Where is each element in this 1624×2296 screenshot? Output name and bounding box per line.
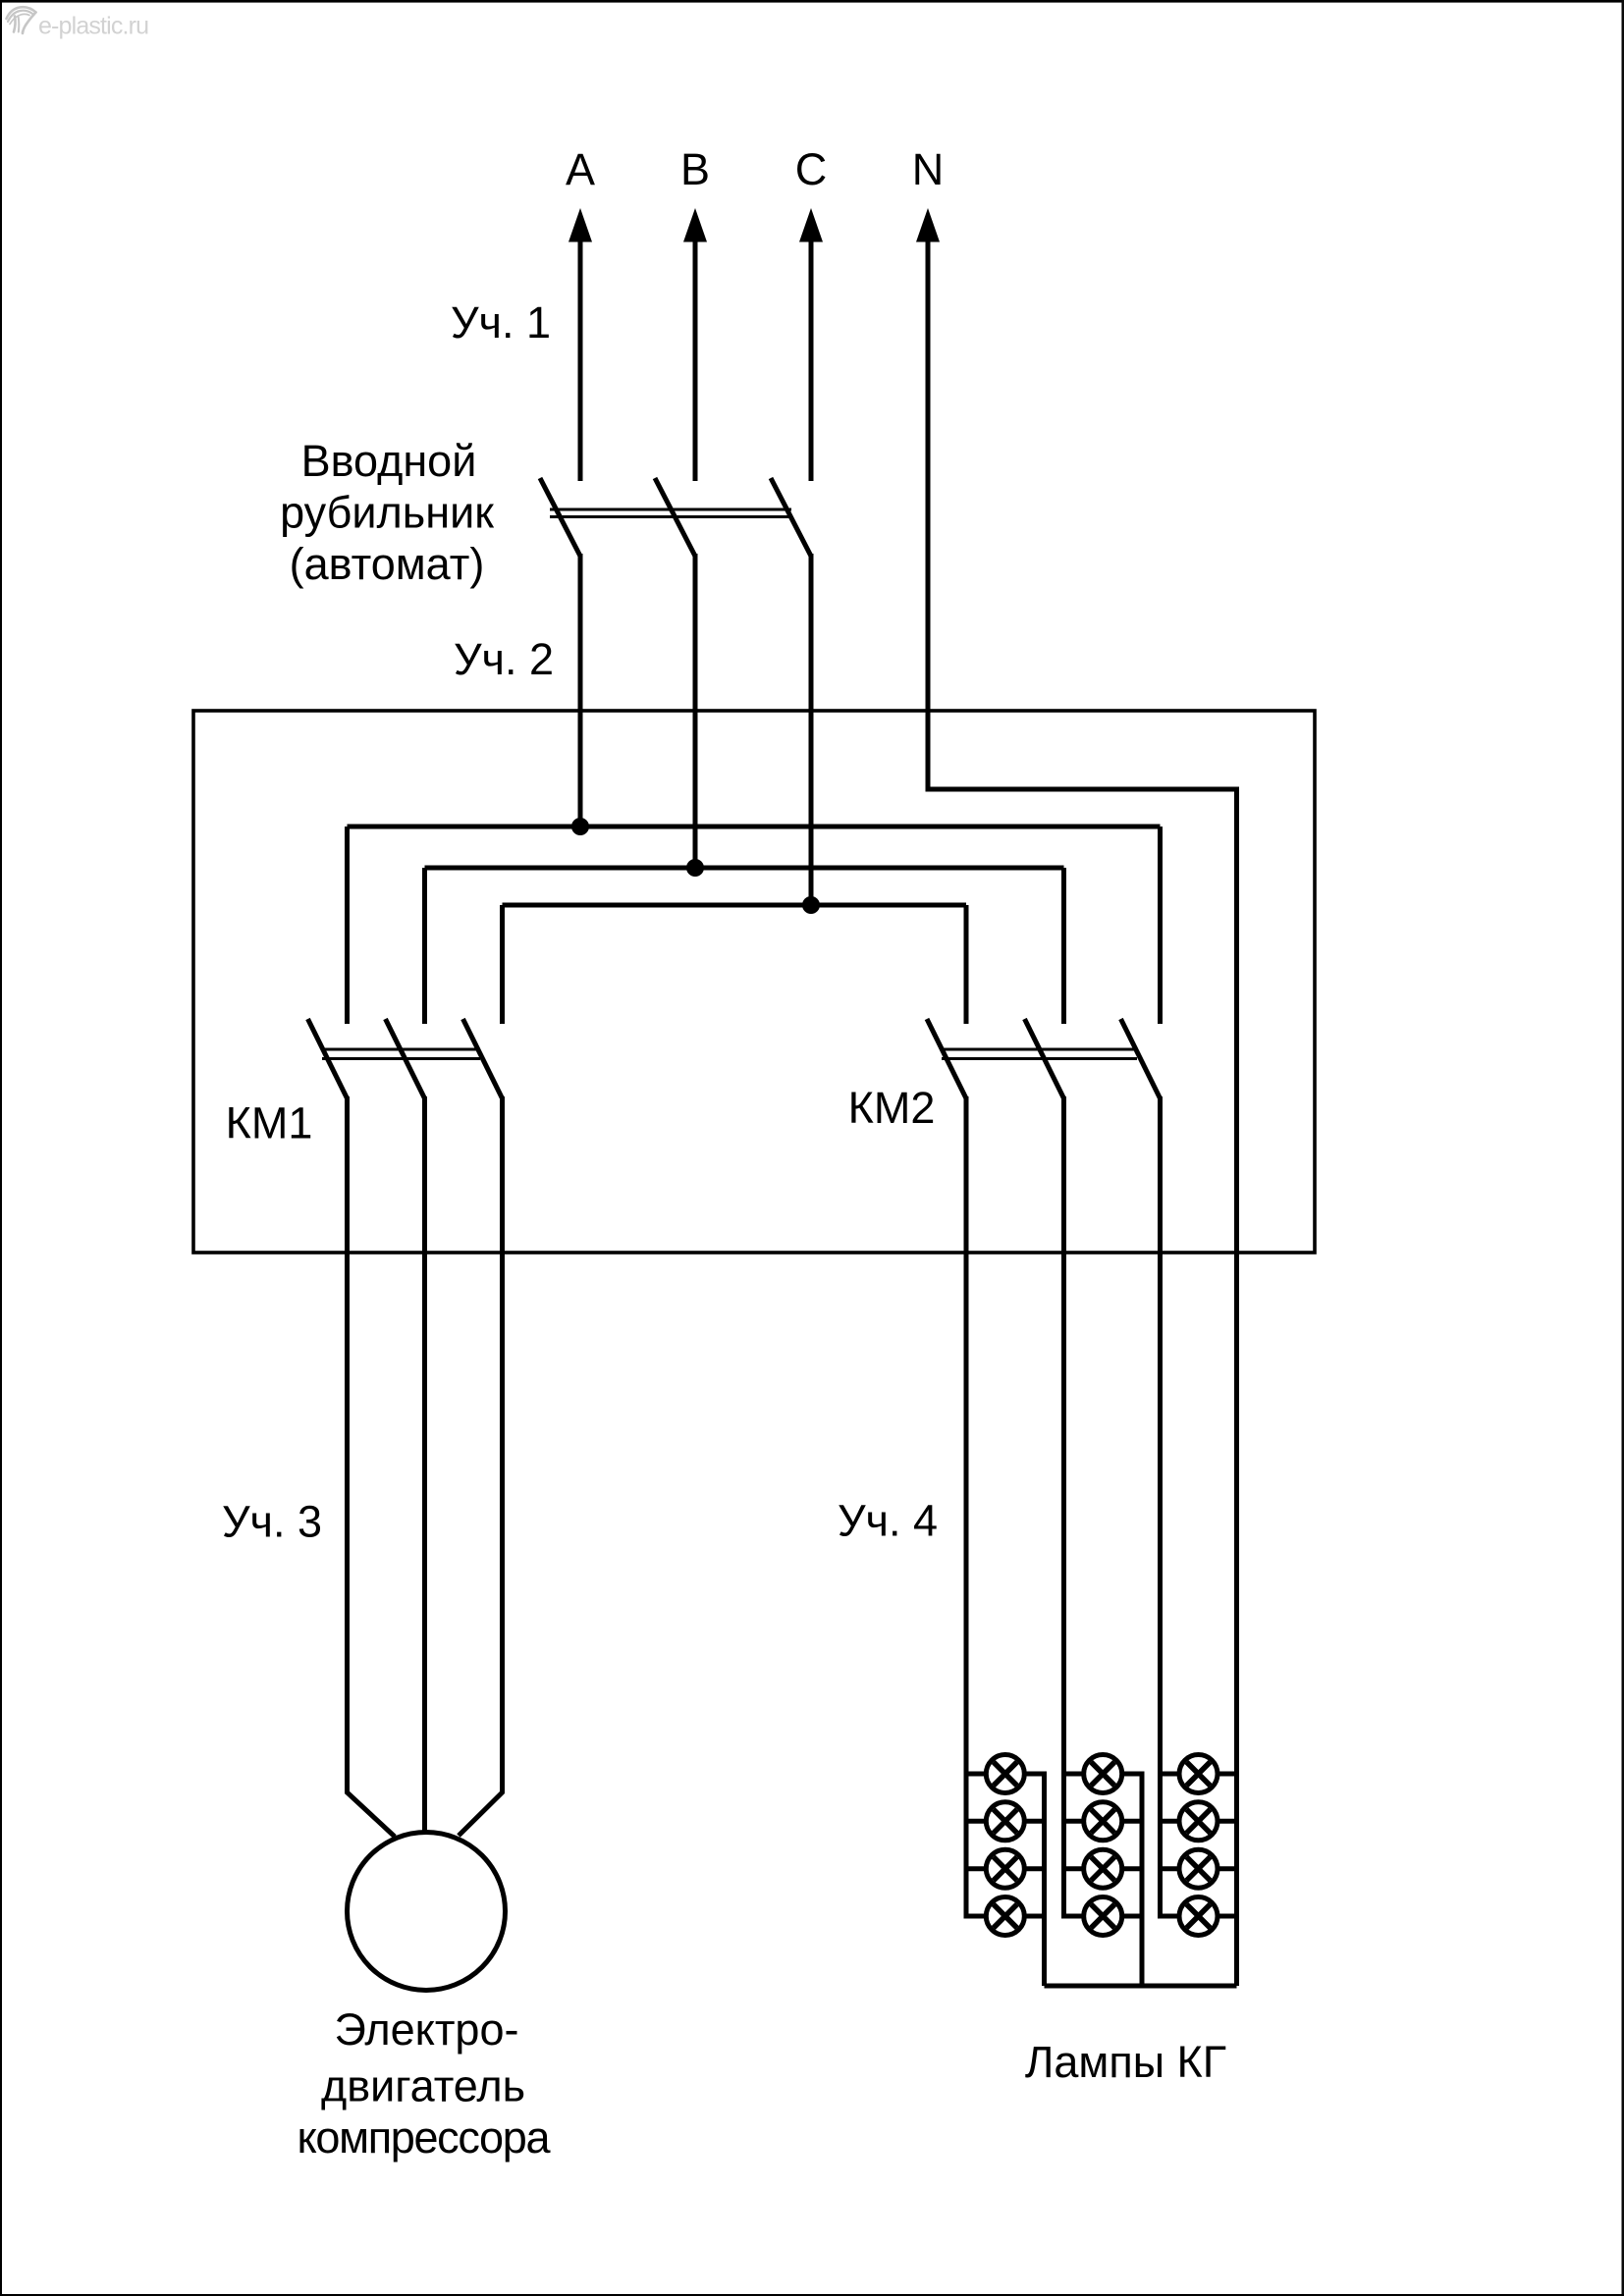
svg-text:Вводной: Вводной: [301, 436, 477, 486]
svg-text:КМ1: КМ1: [226, 1098, 313, 1148]
label Вводной рубильник (автомат): [280, 436, 494, 589]
switch QS blade pole A: [540, 478, 580, 557]
junction node B: [686, 859, 704, 877]
arrow head phase B: [683, 208, 707, 242]
lamp HL6: [1084, 1802, 1122, 1841]
arrow head phase A: [568, 208, 592, 242]
lamp bank 2 row wires: [1064, 1774, 1143, 1916]
lamp bank 3 row wires: [1161, 1774, 1237, 1916]
watermark logo e-plastic: [7, 7, 36, 33]
wire phase A QS to bus A (Уч.2): [578, 554, 583, 827]
svg-text:двигатель: двигатель: [321, 2061, 525, 2111]
motor M circle: [348, 1833, 506, 1991]
wire phase B incoming: [693, 240, 698, 481]
wire KM1 pole1 to motor: [348, 1096, 396, 1837]
svg-text:Уч. 4: Уч. 4: [838, 1496, 938, 1546]
bus phase A: [348, 827, 1161, 1024]
neutral bottom bus: [1045, 1984, 1237, 1989]
wire phase B QS to bus B: [693, 554, 698, 868]
lamp HL11: [1179, 1849, 1218, 1888]
svg-text:Уч. 1: Уч. 1: [451, 297, 551, 347]
wire phase A incoming (Уч.1): [578, 240, 583, 481]
label Электродвигатель компрессора: [298, 2004, 552, 2163]
lamp HL12: [1179, 1897, 1218, 1936]
wire KM2 pole2 to lamp bank 2: [1061, 1096, 1066, 1919]
page border bottom: [0, 2294, 1624, 2296]
contactor KM1 blade pole 3: [463, 1019, 503, 1098]
contactor KM2 blade pole 3: [1121, 1019, 1161, 1098]
wire KM2 pole3 to lamp bank 3: [1158, 1096, 1163, 1919]
lamp HL9: [1179, 1755, 1218, 1793]
distribution box: [193, 711, 1315, 1253]
page border left: [0, 0, 2, 2296]
svg-text:КМ2: КМ2: [848, 1083, 936, 1133]
arrow head phase C: [799, 208, 823, 242]
svg-text:Уч. 2: Уч. 2: [454, 634, 554, 684]
lamp HL10: [1179, 1802, 1218, 1841]
contactor KM1 blade pole 1: [308, 1019, 348, 1098]
svg-text:e-plastic.ru: e-plastic.ru: [38, 13, 149, 40]
svg-text:B: B: [680, 144, 710, 194]
lamp bank 1 return rail: [1042, 1772, 1047, 1987]
contactor KM1 linkage bar: [322, 1049, 480, 1059]
junction node A: [571, 818, 589, 835]
bus phase B: [425, 868, 1064, 1024]
page border top: [0, 0, 1624, 3]
bus phase C: [503, 905, 967, 1024]
lamp HL3: [986, 1849, 1024, 1888]
svg-text:Лампы КГ: Лампы КГ: [1025, 2037, 1226, 2087]
lamp bank 2 return rail: [1140, 1772, 1145, 1987]
wire KM1 pole2 to motor: [422, 1096, 427, 1833]
svg-text:A: A: [566, 144, 595, 194]
junction node C: [802, 896, 820, 914]
lamp HL1: [986, 1755, 1024, 1793]
arrow head neutral N: [916, 208, 940, 242]
lamp bank 1 row wires: [966, 1774, 1045, 1916]
lamp HL5: [1084, 1755, 1122, 1793]
contactor KM1 blade pole 2: [386, 1019, 425, 1098]
contactor KM2 linkage bar: [942, 1049, 1137, 1059]
lamp HL7: [1084, 1849, 1122, 1888]
switch QS linkage bar: [550, 509, 791, 517]
wire phase C incoming: [809, 240, 814, 481]
wire neutral N (down, right, down to lamp bank 3): [928, 240, 1237, 1986]
wire KM1 pole3 to motor: [459, 1096, 503, 1836]
svg-text:рубильник: рубильник: [280, 488, 494, 538]
svg-text:Уч. 3: Уч. 3: [222, 1497, 322, 1547]
svg-text:(автомат): (автомат): [290, 539, 485, 589]
svg-text:компрессора: компрессора: [298, 2112, 552, 2163]
contactor KM2 blade pole 2: [1025, 1019, 1064, 1098]
lamp HL2: [986, 1802, 1024, 1841]
svg-text:Электро-: Электро-: [335, 2004, 519, 2055]
wire KM2 pole1 to lamp bank 1: [964, 1096, 969, 1919]
contactor KM2 blade pole 1: [927, 1019, 966, 1098]
page border right: [1622, 0, 1624, 2296]
lamp HL8: [1084, 1897, 1122, 1936]
switch QS blade pole B: [655, 478, 695, 557]
svg-text:C: C: [795, 144, 828, 194]
wire phase C QS to bus C: [809, 554, 814, 905]
lamp HL4: [986, 1897, 1024, 1936]
svg-text:N: N: [912, 144, 945, 194]
switch QS blade pole C: [771, 478, 811, 557]
